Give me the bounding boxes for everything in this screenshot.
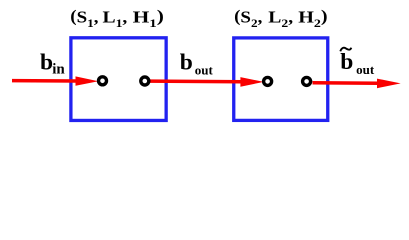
- label (S2, L2, H2): [234, 7, 327, 30]
- svg-text:L2,: L2,: [268, 8, 293, 30]
- svg-text:L1,: L1,: [103, 8, 128, 30]
- svg-text:H2): H2): [298, 7, 327, 29]
- box S1: [71, 38, 166, 121]
- svg-text:bout: bout: [180, 50, 214, 78]
- arrow b~_out: [313, 79, 401, 89]
- svg-text:(S2,: (S2,: [234, 7, 262, 30]
- box S2: [234, 38, 328, 121]
- circle 2 in box S1: [141, 77, 149, 85]
- svg-text:bin: bin: [40, 50, 65, 78]
- svg-text:(S1,: (S1,: [70, 7, 98, 30]
- tilde of b~_out: [340, 48, 351, 52]
- circle 2 in box S2: [303, 77, 311, 85]
- svg-text:bout: bout: [340, 49, 375, 77]
- arrow b_in: [12, 76, 98, 85]
- label (S1, L1, H1): [70, 7, 164, 30]
- arrow b_out: [150, 77, 264, 87]
- circle 1 in box S1: [99, 77, 107, 85]
- svg-text:H1): H1): [133, 8, 164, 30]
- circle 1 in box S2: [264, 77, 272, 85]
